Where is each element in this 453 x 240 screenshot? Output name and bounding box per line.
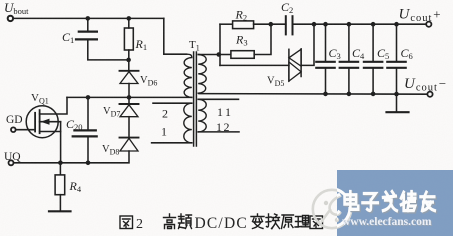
- wire R2 left lead: [220, 23, 233, 25]
- svg-text:C2: C2: [281, 0, 293, 15]
- watermark elecfans box: [312, 170, 453, 236]
- transistor VQ1 gate bar: [34, 113, 36, 132]
- svg-text:VD5: VD5: [267, 76, 284, 89]
- wire ground right lead: [396, 94, 398, 112]
- wire R3 right lead up: [254, 24, 271, 54]
- svg-text:VQ1: VQ1: [31, 92, 49, 106]
- svg-text:11: 11: [217, 105, 234, 119]
- resistor R3: [231, 51, 254, 59]
- watermark hanzi dianzifashaoyou: [346, 193, 436, 212]
- svg-text:Ucout−: Ucout−: [404, 76, 448, 94]
- wire to VD6: [128, 60, 130, 71]
- wire VD8 bottom to source rail: [14, 151, 129, 163]
- svg-text:VD7: VD7: [103, 106, 120, 119]
- svg-text:C1: C1: [62, 30, 74, 45]
- svg-text:Ucout+: Ucout+: [399, 7, 443, 25]
- svg-text:1: 1: [161, 125, 167, 139]
- diac VD5: [289, 49, 301, 81]
- watermark logo circle white part: [312, 189, 350, 227]
- svg-text:C20: C20: [66, 117, 83, 132]
- wire tap 12: [198, 131, 239, 133]
- svg-text:12: 12: [216, 120, 231, 134]
- scan noise: [0, 0, 1, 1]
- capacitor C6: [387, 24, 405, 94]
- wire R1 bottom lead: [128, 50, 130, 60]
- junction C6 top: [394, 22, 399, 27]
- hanzi li: [295, 216, 309, 228]
- svg-text:C5: C5: [377, 46, 389, 61]
- svg-text:C4: C4: [352, 46, 365, 61]
- junction C3 bottom: [323, 92, 328, 97]
- capacitor C5: [364, 24, 382, 94]
- caption figure 2: [120, 216, 133, 229]
- capacitor C4: [340, 24, 358, 94]
- svg-text:2: 2: [162, 107, 168, 121]
- wire tap 1: [152, 142, 192, 144]
- hanzi bian: [251, 214, 264, 229]
- wire drain rail: [67, 96, 192, 98]
- svg-text:R2: R2: [235, 8, 248, 23]
- svg-text:VD8: VD8: [102, 144, 119, 157]
- diode VD7: [120, 104, 139, 117]
- junction source/R4: [58, 161, 63, 166]
- transistor VQ1 circle: [26, 106, 58, 138]
- wire C20 bottom lead: [87, 136, 89, 162]
- capacitor C1: [76, 32, 97, 40]
- junction C4 bottom: [347, 92, 352, 97]
- transistor VQ1 drain lead: [40, 97, 67, 114]
- junction R1 bottom: [126, 58, 131, 63]
- capacitor C2: [286, 16, 293, 34]
- junction C5 top: [371, 22, 376, 27]
- wire C20 top lead: [87, 97, 89, 129]
- terminal GD: [11, 127, 16, 132]
- watermark logo circle shadow: [313, 190, 351, 228]
- wire R2 right lead: [254, 23, 286, 25]
- wire C1 top lead: [87, 18, 89, 31]
- junction VD5 rail: [312, 22, 317, 27]
- hanzi yuan: [282, 215, 294, 229]
- junction C5 bottom: [371, 92, 376, 97]
- wire bottom output rail: [199, 93, 427, 96]
- svg-text:DC/DC: DC/DC: [195, 215, 248, 232]
- svg-text:www.elecfans.com: www.elecfans.com: [342, 216, 432, 228]
- transformer T1 primary upper winding: [184, 54, 192, 97]
- hanzi tu 2: [310, 216, 323, 229]
- transistor VQ1 source lead: [40, 131, 61, 133]
- terminal UQ: [9, 160, 14, 165]
- transformer T1 core: [194, 52, 197, 146]
- capacitor C3: [316, 24, 334, 94]
- junction C6 bottom: [394, 92, 399, 97]
- wire secondary top tap: [198, 54, 220, 56]
- junction C20 bottom: [86, 161, 91, 166]
- wire VD7-VD8: [128, 117, 130, 138]
- junction C1 top: [86, 16, 91, 21]
- wire tap 11: [198, 98, 238, 100]
- svg-text:C6: C6: [401, 46, 413, 61]
- diode VD6: [120, 71, 139, 84]
- ground left: [49, 210, 71, 212]
- terminal Ucout-: [427, 92, 432, 97]
- wire R3 left lead: [220, 54, 231, 56]
- svg-text:R4: R4: [69, 179, 82, 194]
- wire jog down to T1: [164, 18, 187, 54]
- resistor R1: [124, 28, 133, 50]
- ground right: [387, 111, 409, 113]
- hanzi gao: [164, 214, 176, 229]
- svg-text:Ubout: Ubout: [4, 0, 29, 16]
- wire vertical node A: [219, 24, 221, 65]
- transistor VQ1 channel bar: [39, 110, 41, 133]
- junction R1 top: [127, 16, 132, 21]
- wire R4 bottom lead: [59, 195, 61, 211]
- hanzi tu: [120, 216, 133, 229]
- junction drain rail / diode column: [127, 95, 132, 100]
- wire VD7 top lead: [128, 97, 130, 104]
- svg-text:2: 2: [136, 217, 143, 232]
- junction R2 R3 C2: [269, 22, 274, 27]
- junction secondary tap: [217, 52, 222, 57]
- wire R4 top lead: [59, 163, 61, 175]
- transformer T1 primary lower winding: [184, 103, 192, 143]
- junction C20 top: [86, 95, 91, 100]
- wire VD5 left lead: [220, 64, 289, 66]
- wire top input rail: [14, 17, 164, 19]
- transformer T1 secondary upper winding: [198, 55, 206, 94]
- svg-text:R1: R1: [135, 37, 148, 52]
- terminal Ubout: [8, 16, 13, 21]
- hanzi huan: [266, 214, 280, 229]
- wire gate: [16, 129, 35, 131]
- svg-text:VD6: VD6: [140, 75, 157, 88]
- wire tap 2: [153, 102, 192, 104]
- wire R1 top lead: [128, 18, 130, 28]
- svg-text:GD: GD: [6, 114, 23, 126]
- wire top output rail: [293, 23, 426, 25]
- junction C3 top: [323, 22, 328, 27]
- wire C1 bottom lead: [88, 39, 129, 60]
- resistor R4: [55, 175, 65, 195]
- terminal Ucout+: [426, 22, 431, 27]
- svg-text:C3: C3: [329, 46, 341, 61]
- diode VD8: [120, 138, 139, 151]
- svg-text:T1: T1: [189, 39, 200, 53]
- resistor R2: [233, 21, 254, 29]
- hanzi pin: [179, 214, 192, 229]
- transformer T1 secondary lower winding: [198, 99, 206, 132]
- capacitor C20: [73, 130, 97, 136]
- wire VD6 to junction: [128, 84, 130, 98]
- transistor VQ1 body arrow: [40, 119, 61, 125]
- wire VD5 right lead: [301, 24, 314, 65]
- junction C4 top: [347, 22, 352, 27]
- svg-text:R3: R3: [235, 33, 248, 48]
- wire source down: [60, 122, 62, 163]
